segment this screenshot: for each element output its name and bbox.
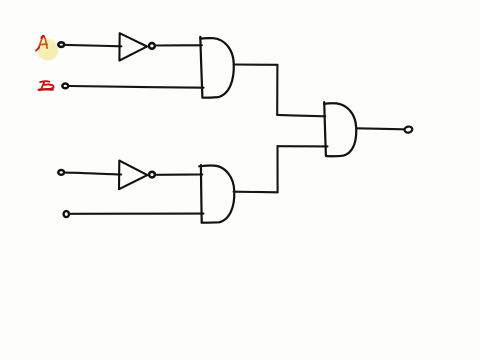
label A accents — [36, 36, 45, 51]
wire vertical down — [276, 65, 278, 115]
wire C to NOT2 — [65, 173, 121, 175]
and-gate AND2 left edge — [200, 165, 203, 223]
output terminal — [404, 126, 413, 133]
inverter NOT1 — [119, 33, 147, 60]
inverter NOT2 — [119, 161, 147, 190]
and-gate AND2 body — [199, 166, 234, 223]
wire to final gate bottom input — [278, 145, 328, 147]
wire NOT1 to AND1 — [157, 44, 202, 46]
input terminal B — [62, 84, 68, 89]
input terminal C — [58, 170, 64, 175]
wire NOT2 to AND2 — [157, 173, 203, 175]
wire AND1 output — [234, 63, 278, 65]
and-gate AND1 body — [200, 38, 234, 98]
and-gate AND3 left edge — [324, 102, 326, 156]
NOT2 bubble — [149, 172, 155, 178]
and-gate AND3 body — [324, 103, 356, 156]
NOT1 bubble — [149, 43, 155, 49]
and-gate AND1 left edge — [200, 37, 202, 98]
wire to final gate top input — [277, 115, 325, 116]
node A highlight — [37, 39, 58, 60]
wire AND2 output — [234, 191, 278, 194]
wire A to NOT1 — [66, 45, 122, 46]
input terminal A — [58, 42, 64, 47]
wire B to AND1 — [69, 86, 203, 88]
label A — [39, 36, 48, 49]
wire vertical up — [276, 146, 278, 192]
input terminal D — [64, 211, 69, 217]
label B — [38, 81, 53, 90]
wire output — [356, 128, 404, 129]
wire D to AND2 — [70, 213, 204, 215]
